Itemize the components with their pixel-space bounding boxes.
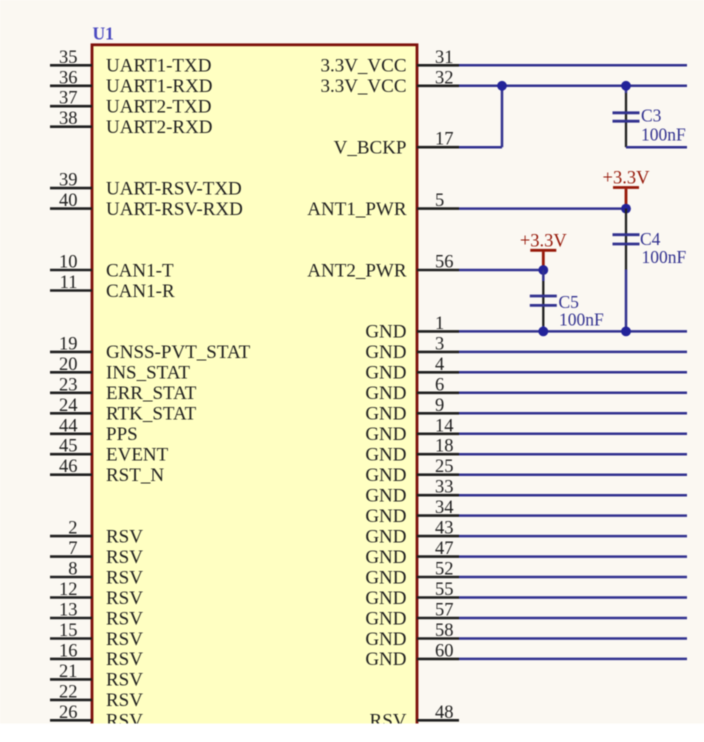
capacitor C5 lead (542, 270, 545, 281)
wire V_BCKP branch vertical at x=502 (501, 86, 504, 147)
pin 34 GND (right) (365, 498, 459, 527)
svg-text:UART1-TXD: UART1-TXD (106, 56, 211, 77)
svg-text:12: 12 (59, 580, 78, 600)
svg-text:100nF: 100nF (642, 247, 687, 267)
svg-text:RSV: RSV (106, 649, 143, 670)
wire net from pin 25 to right (459, 473, 687, 476)
svg-text:10: 10 (59, 253, 78, 273)
junction GND net / C5 (538, 327, 548, 337)
svg-text:GND: GND (365, 486, 406, 507)
svg-text:GNSS-PVT_STAT: GNSS-PVT_STAT (106, 342, 251, 363)
svg-text:35: 35 (59, 48, 78, 68)
svg-text:7: 7 (68, 539, 77, 559)
wire net from pin 6 to right (459, 392, 687, 395)
wire ANT1_PWR net (pin 5 to C4/+3.3V junction) (459, 207, 626, 210)
svg-text:RSV: RSV (106, 690, 143, 711)
capacitor C3 plates (613, 111, 640, 114)
pin 2 RSV (left) (50, 519, 143, 548)
svg-text:ERR_STAT: ERR_STAT (106, 383, 197, 404)
svg-text:EVENT: EVENT (106, 445, 169, 466)
svg-text:47: 47 (435, 539, 454, 559)
svg-text:GND: GND (365, 465, 406, 486)
power +3.3V symbol (over C4) (603, 169, 651, 209)
svg-text:40: 40 (59, 191, 78, 211)
svg-text:8: 8 (68, 560, 77, 580)
svg-text:V_BCKP: V_BCKP (334, 138, 407, 159)
capacitor C5 plates (530, 295, 557, 298)
svg-text:36: 36 (59, 68, 78, 88)
svg-text:GND: GND (365, 363, 406, 384)
pin 10 CAN1-T (left) (50, 253, 174, 282)
pin 35 UART1-TXD (left) (50, 48, 211, 77)
pin 20 INS_STAT (left) (50, 355, 190, 384)
wire net from pin 60 to right (459, 658, 687, 661)
wire net from pin 34 to right (459, 514, 687, 517)
svg-text:GND: GND (365, 342, 406, 363)
svg-text:16: 16 (59, 641, 78, 661)
wire net from pin 33 to right (459, 494, 687, 497)
wire net from pin 3 to right (459, 351, 687, 354)
pin 56 ANT2_PWR (right) (307, 253, 459, 282)
pin 32 3.3V_VCC (right) (320, 68, 459, 97)
svg-text:48: 48 (435, 703, 454, 723)
svg-text:C4: C4 (640, 229, 661, 249)
svg-text:GND: GND (365, 629, 406, 650)
pin 36 UART1-RXD (left) (50, 68, 213, 97)
pin 60 GND (right) (365, 641, 459, 670)
pin 46 RST_N (left) (50, 457, 164, 486)
svg-text:39: 39 (59, 171, 78, 191)
pin 14 GND (right) (365, 416, 459, 445)
pin 12 RSV (left) (50, 580, 143, 609)
svg-text:34: 34 (435, 498, 454, 518)
svg-text:3.3V_VCC: 3.3V_VCC (320, 56, 406, 77)
svg-text:55: 55 (435, 580, 454, 600)
pin 15 RSV (left) (50, 621, 143, 650)
svg-text:23: 23 (59, 375, 78, 395)
svg-text:43: 43 (435, 519, 454, 539)
svg-text:9: 9 (435, 396, 444, 416)
svg-text:11: 11 (60, 273, 78, 293)
pin 22 RSV (left) (50, 682, 143, 711)
svg-text:RSV: RSV (106, 547, 143, 568)
svg-text:RSV: RSV (106, 670, 143, 691)
svg-text:RST_N: RST_N (106, 465, 164, 486)
svg-text:21: 21 (59, 662, 78, 682)
pin 11 CAN1-R (left) (50, 273, 175, 302)
pin 9 GND (right) (365, 396, 459, 425)
wire net from pin 58 to right (459, 637, 687, 640)
svg-text:GND: GND (365, 608, 406, 629)
pin 48 RSV (right) (370, 703, 459, 732)
wire net from pin 18 to right (459, 453, 687, 456)
svg-text:13: 13 (59, 601, 78, 621)
svg-text:+3.3V: +3.3V (520, 231, 568, 251)
pin 1 GND (right) (365, 314, 459, 343)
pin 13 RSV (left) (50, 601, 143, 630)
svg-text:UART1-RXD: UART1-RXD (106, 76, 213, 97)
svg-text:24: 24 (59, 396, 78, 416)
pin 37 UART2-TXD (left) (50, 89, 211, 118)
svg-text:2: 2 (68, 519, 77, 539)
svg-text:UART2-TXD: UART2-TXD (106, 97, 211, 118)
svg-text:INS_STAT: INS_STAT (106, 363, 190, 384)
svg-text:GND: GND (365, 526, 406, 547)
svg-text:45: 45 (59, 437, 78, 457)
pin 39 UART-RSV-TXD (left) (50, 171, 242, 200)
svg-text:+3.3V: +3.3V (603, 169, 651, 189)
pin 17 V_BCKP (right) (334, 130, 459, 159)
svg-text:GND: GND (365, 588, 406, 609)
pin 3 GND (right) (365, 334, 459, 363)
wire net from pin 47 to right (459, 555, 687, 558)
svg-text:GND: GND (365, 404, 406, 425)
junction pin32 net / C3 (621, 81, 631, 91)
pin 5 ANT1_PWR (right) (307, 191, 459, 220)
svg-text:GND: GND (365, 322, 406, 343)
pin 16 RSV (left) (50, 641, 143, 670)
svg-text:GND: GND (365, 424, 406, 445)
svg-text:GND: GND (365, 383, 406, 404)
svg-text:3: 3 (435, 334, 444, 354)
svg-text:RSV: RSV (106, 608, 143, 629)
svg-text:GND: GND (365, 547, 406, 568)
svg-text:26: 26 (59, 703, 78, 723)
svg-text:57: 57 (435, 601, 454, 621)
svg-text:46: 46 (59, 457, 78, 477)
svg-text:100nF: 100nF (559, 310, 604, 330)
wire net from pin 52 to right (459, 576, 687, 579)
junction GND net / C4 (621, 327, 631, 337)
svg-text:19: 19 (59, 334, 78, 354)
svg-text:33: 33 (435, 478, 454, 498)
svg-text:RSV: RSV (106, 588, 143, 609)
svg-text:ANT2_PWR: ANT2_PWR (307, 260, 407, 281)
pin 24 RTK_STAT (left) (50, 396, 197, 425)
pin 55 GND (right) (365, 580, 459, 609)
svg-text:UART-RSV-RXD: UART-RSV-RXD (106, 199, 243, 220)
svg-text:17: 17 (435, 130, 454, 150)
svg-text:CAN1-R: CAN1-R (106, 281, 175, 302)
svg-text:56: 56 (435, 253, 454, 273)
svg-text:GND: GND (365, 506, 406, 527)
svg-text:32: 32 (435, 68, 454, 88)
svg-text:PPS: PPS (106, 424, 138, 445)
crop edge: white area below schematic image (0, 724, 704, 742)
capacitor C3 top lead (625, 86, 628, 93)
pin 47 GND (right) (365, 539, 459, 568)
pin 7 RSV (left) (50, 539, 143, 568)
wire from C3 bottom to right (626, 146, 687, 149)
pin 40 UART-RSV-RXD (left) (50, 191, 243, 220)
pin 52 GND (right) (365, 560, 459, 589)
svg-text:60: 60 (435, 641, 454, 661)
junction pin32 net / V_BCKP branch (497, 81, 507, 91)
wire net from pin 4 to right (459, 371, 687, 374)
pin 33 GND (right) (365, 478, 459, 507)
junction ANT2_PWR / +3.3V / C5 (538, 265, 548, 275)
wire net from pin 31 to right (459, 64, 687, 67)
svg-text:38: 38 (59, 109, 78, 129)
wire ANT2_PWR net (pin 56 to C5/+3.3V junction) (459, 269, 543, 272)
wire net from pin 1 to right (459, 330, 687, 333)
svg-text:GND: GND (365, 567, 406, 588)
pin 21 RSV (left) (50, 662, 143, 691)
pin 38 UART2-RXD (left) (50, 109, 213, 138)
capacitor C4 lead (625, 209, 627, 270)
svg-text:22: 22 (59, 682, 78, 702)
svg-text:RSV: RSV (106, 567, 143, 588)
wire net from pin 14 to right (459, 433, 687, 436)
pin 26 RSV (left) (50, 703, 143, 732)
svg-text:RTK_STAT: RTK_STAT (106, 404, 197, 425)
junction ANT1_PWR / +3.3V / C4 (621, 204, 631, 214)
svg-text:6: 6 (435, 375, 444, 395)
svg-text:1: 1 (435, 314, 444, 334)
svg-text:18: 18 (435, 437, 454, 457)
svg-text:RSV: RSV (106, 629, 143, 650)
wire V_BCKP horizontal to pin 17 (459, 146, 502, 149)
svg-text:3.3V_VCC: 3.3V_VCC (320, 76, 406, 97)
capacitor C4 plates (613, 233, 640, 236)
pin 45 EVENT (left) (50, 437, 169, 466)
IC U1 body (GNSS module rectangle) (92, 45, 417, 742)
wire net from pin 57 to right (459, 617, 687, 620)
svg-text:14: 14 (435, 416, 454, 436)
power +3.3V symbol (over C5) (520, 231, 568, 270)
svg-text:4: 4 (435, 355, 444, 375)
svg-text:C3: C3 (641, 106, 662, 126)
pin 25 GND (right) (365, 457, 459, 486)
svg-text:100nF: 100nF (641, 125, 686, 145)
svg-text:GND: GND (365, 445, 406, 466)
pin 43 GND (right) (365, 519, 459, 548)
pin 44 PPS (left) (50, 416, 138, 445)
svg-text:ANT1_PWR: ANT1_PWR (307, 199, 407, 220)
pin 23 ERR_STAT (left) (50, 375, 197, 404)
svg-text:58: 58 (435, 621, 454, 641)
svg-text:CAN1-T: CAN1-T (106, 260, 174, 281)
svg-text:52: 52 (435, 560, 454, 580)
svg-text:GND: GND (365, 649, 406, 670)
svg-text:31: 31 (435, 48, 454, 68)
svg-text:UART-RSV-TXD: UART-RSV-TXD (106, 178, 242, 199)
svg-text:44: 44 (59, 416, 78, 436)
svg-text:20: 20 (59, 355, 78, 375)
wire net from pin 43 to right (459, 535, 687, 538)
pin 8 RSV (left) (50, 560, 143, 589)
pin 57 GND (right) (365, 601, 459, 630)
svg-text:37: 37 (59, 89, 78, 109)
svg-text:U1: U1 (93, 24, 114, 44)
svg-text:25: 25 (435, 457, 454, 477)
wire net from pin 32 to right (459, 85, 687, 88)
wire net from pin 9 to right (459, 412, 687, 415)
pin 6 GND (right) (365, 375, 459, 404)
pin 31 3.3V_VCC (right) (320, 48, 459, 77)
pin 4 GND (right) (365, 355, 459, 384)
pin 58 GND (right) (365, 621, 459, 650)
svg-text:UART2-RXD: UART2-RXD (106, 117, 213, 138)
wire net from pin 55 to right (459, 596, 687, 599)
pin 18 GND (right) (365, 437, 459, 466)
svg-text:RSV: RSV (106, 526, 143, 547)
svg-text:15: 15 (59, 621, 78, 641)
svg-text:5: 5 (435, 191, 444, 211)
pin 19 GNSS-PVT_STAT (left) (50, 334, 251, 363)
